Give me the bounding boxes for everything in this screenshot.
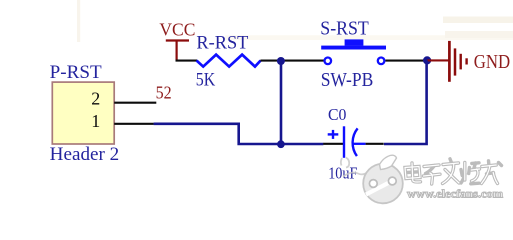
svg-text:Header 2: Header 2 [50, 144, 120, 165]
svg-text:C0: C0 [328, 105, 346, 124]
capacitor C0 left pin [323, 143, 343, 145]
watermark chinese text (stylised strokes) [405, 159, 502, 184]
svg-text:VCC: VCC [159, 20, 195, 40]
junction node C (GND tie) [423, 56, 431, 64]
watermark logo circle [363, 155, 403, 203]
switch S-RST left terminal circle [325, 58, 332, 65]
junction node A (top of vertical tie) [277, 57, 285, 65]
svg-text:52: 52 [156, 83, 172, 103]
char fa [443, 163, 459, 165]
wire node A to node B vertical [280, 61, 283, 144]
svg-text:R-RST: R-RST [196, 33, 248, 54]
wire node C down to capacitor [384, 60, 427, 144]
svg-text:1: 1 [91, 111, 100, 131]
svg-text:GND: GND [474, 52, 510, 73]
svg-text:P-RST: P-RST [50, 62, 102, 83]
faint tiled watermark band [77, 0, 513, 42]
connector P1 pin 2 lead [114, 102, 156, 104]
svg-text:www.elecfans.com: www.elecfans.com [407, 186, 503, 200]
capacitor C0 straight plate [343, 126, 345, 158]
svg-text:2: 2 [91, 89, 100, 109]
char dian [405, 167, 420, 179]
tick accent [499, 163, 502, 166]
power port GND bars [449, 41, 466, 82]
connector P1 body (Header 2) [52, 82, 114, 144]
junction node B (bottom tie) [277, 140, 285, 148]
power port VCC bar symbol [166, 41, 189, 61]
wire switch to GND node [386, 60, 425, 62]
capacitor C0 curved plate [353, 128, 358, 156]
capacitor C0 plus sign [328, 130, 339, 139]
char zi [424, 165, 439, 167]
switch S-RST pushbutton bar [321, 39, 386, 49]
svg-text:5K: 5K [196, 71, 216, 91]
char you [482, 165, 496, 167]
resistor right pin / wire to switch [260, 60, 324, 62]
svg-text:SW-PB: SW-PB [321, 70, 374, 91]
faint watermark tile fragment near capacitor [341, 158, 369, 177]
wire pin1 to node B [154, 124, 324, 144]
connector P1 pin 1 lead [114, 123, 154, 125]
capacitor C0 pin stub [353, 143, 366, 145]
switch S-RST right terminal circle [378, 58, 385, 65]
char shao [463, 163, 466, 181]
power port GND lead [427, 59, 448, 61]
resistor R-RST zigzag body [197, 55, 261, 67]
svg-text:S-RST: S-RST [320, 18, 369, 40]
wire VCC to resistor / resistor left pin [176, 60, 198, 62]
capacitor C0 right pin [366, 143, 384, 145]
